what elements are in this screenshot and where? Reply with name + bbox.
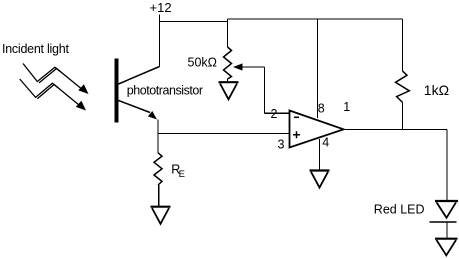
- wire top rail right segment: [228, 18, 403, 20]
- wire emitter node to op-amp pin3: [158, 133, 289, 135]
- wire output node down to LED: [446, 130, 448, 201]
- op-amp U1: [271, 100, 351, 152]
- wiper arrow of 50k pot: [233, 63, 243, 70]
- resistor RE: [154, 153, 162, 185]
- svg-text:3: 3: [278, 138, 285, 152]
- ground (op-amp pin 4): [310, 171, 330, 188]
- resistor 1k wire from rail: [402, 19, 404, 71]
- svg-text:Red LED: Red LED: [374, 203, 425, 217]
- wire op-amp output: [344, 129, 448, 131]
- wire LED to ground: [446, 222, 448, 238]
- ground (below LED): [435, 239, 458, 256]
- wire top rail left segment: [159, 21, 228, 23]
- phototransistor Q1: [115, 59, 203, 123]
- svg-text:8: 8: [318, 101, 325, 115]
- ground (below 50k pot): [219, 82, 239, 99]
- LED D1: [430, 201, 459, 222]
- potentiometer 50k wire from rail: [227, 19, 229, 47]
- svg-text:phototransistor: phototransistor: [127, 84, 203, 98]
- svg-text:+12: +12: [150, 0, 172, 15]
- wire pot bottom: [227, 79, 229, 82]
- svg-text:2: 2: [271, 107, 278, 121]
- wire pin4 to ground: [319, 139, 321, 170]
- svg-text:4: 4: [322, 136, 329, 150]
- svg-text:E: E: [179, 169, 185, 180]
- potentiometer 50k: [224, 47, 232, 79]
- wire 1k bottom to output node: [402, 102, 404, 130]
- light ray arrow 2: [20, 79, 80, 105]
- svg-text:1kΩ: 1kΩ: [424, 82, 449, 98]
- light ray arrow 1: [23, 64, 82, 90]
- wire emitter down to node: [157, 120, 159, 153]
- wire top rail jog at x=227: [227, 19, 229, 22]
- wire wiper to op-amp pin2: [242, 67, 289, 113]
- svg-text:50kΩ: 50kΩ: [188, 56, 218, 70]
- svg-text:1: 1: [343, 100, 350, 114]
- wire +12 stub down to collector: [159, 15, 161, 67]
- wire RE to ground: [158, 185, 160, 206]
- ground (below RE): [151, 207, 171, 224]
- wire pin8 from rail: [317, 19, 319, 118]
- resistor 1k: [396, 71, 410, 102]
- svg-text:Incident light: Incident light: [2, 42, 69, 56]
